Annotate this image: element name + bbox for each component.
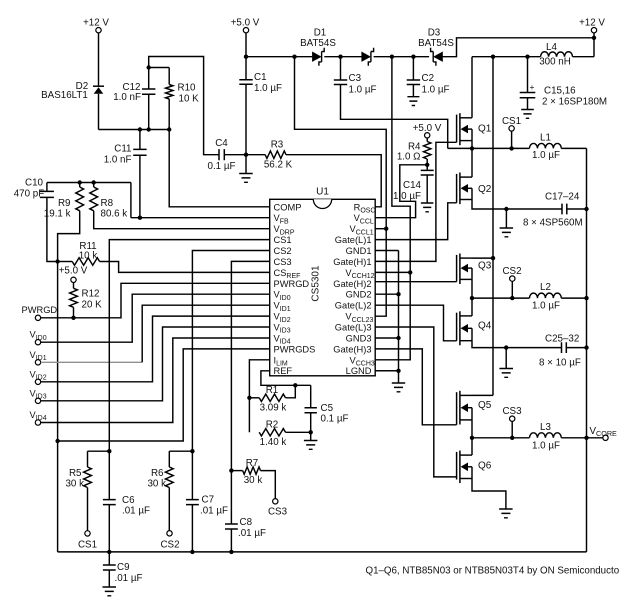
svg-text:U1: U1 <box>316 186 329 197</box>
svg-text:30 k: 30 k <box>244 475 263 486</box>
svg-text:+12 V: +12 V <box>579 18 605 29</box>
svg-text:1.0 µF: 1.0 µF <box>532 301 560 312</box>
svg-text:C3: C3 <box>349 73 362 84</box>
svg-text:R1: R1 <box>266 385 279 396</box>
svg-text:Gate(L)1: Gate(L)1 <box>335 235 372 245</box>
svg-text:+: + <box>530 82 535 92</box>
svg-text:CS5301: CS5301 <box>311 265 322 302</box>
svg-text:BAT54S: BAT54S <box>418 38 454 49</box>
svg-text:CS3: CS3 <box>274 257 292 267</box>
svg-text:Q4: Q4 <box>478 321 492 332</box>
svg-text:56.2 K: 56.2 K <box>264 160 293 171</box>
svg-text:+12 V: +12 V <box>83 18 109 29</box>
svg-text:Gate(H)1: Gate(H)1 <box>333 257 371 267</box>
svg-text:C5: C5 <box>321 403 334 414</box>
svg-text:470 pF: 470 pF <box>14 189 45 200</box>
svg-text:3.09 k: 3.09 k <box>260 403 287 414</box>
svg-text:+5.0 V: +5.0 V <box>231 18 260 29</box>
svg-text:1.0 nF: 1.0 nF <box>104 155 132 166</box>
svg-text:Gate(L)3: Gate(L)3 <box>335 323 372 333</box>
svg-text:19.1 k: 19.1 k <box>44 209 71 220</box>
svg-text:R8: R8 <box>101 198 114 209</box>
svg-text:C10: C10 <box>25 178 44 189</box>
svg-text:+5.0 V: +5.0 V <box>59 266 88 277</box>
svg-text:R7: R7 <box>246 458 259 469</box>
svg-text:300 nH: 300 nH <box>539 57 571 68</box>
svg-text:CS1: CS1 <box>502 116 521 127</box>
svg-text:1.0 Ω: 1.0 Ω <box>397 152 421 163</box>
svg-text:CS1: CS1 <box>274 235 292 245</box>
svg-text:.01 µF: .01 µF <box>122 506 150 517</box>
svg-text:COMP: COMP <box>274 202 302 212</box>
svg-text:10 K: 10 K <box>179 94 200 105</box>
svg-text:C7: C7 <box>202 495 215 506</box>
svg-text:CS1: CS1 <box>78 540 97 551</box>
svg-text:20 K: 20 K <box>82 300 103 311</box>
svg-text:L3: L3 <box>540 422 551 433</box>
svg-text:L1: L1 <box>540 132 551 143</box>
svg-text:BAS16LT1: BAS16LT1 <box>41 90 88 101</box>
svg-text:1.0 µF: 1.0 µF <box>254 83 282 94</box>
svg-text:CS2: CS2 <box>502 266 521 277</box>
svg-text:1.0 µF: 1.0 µF <box>393 191 421 202</box>
svg-text:Gate(L)2: Gate(L)2 <box>335 301 372 311</box>
svg-text:1.0 nF: 1.0 nF <box>113 92 141 103</box>
svg-text:BAT54S: BAT54S <box>300 38 336 49</box>
svg-text:PWRGDS: PWRGDS <box>274 344 316 354</box>
svg-text:D1: D1 <box>314 28 327 39</box>
svg-text:30 k: 30 k <box>65 479 84 490</box>
svg-text:C2: C2 <box>422 73 435 84</box>
svg-text:D3: D3 <box>428 28 441 39</box>
svg-text:R10: R10 <box>178 83 197 94</box>
svg-text:.01 µF: .01 µF <box>238 528 266 539</box>
svg-text:L4: L4 <box>546 42 557 53</box>
svg-text:C14: C14 <box>403 180 422 191</box>
svg-text:30 k: 30 k <box>147 479 166 490</box>
svg-text:2 × 16SP180M: 2 × 16SP180M <box>542 97 607 108</box>
svg-text:C15,16: C15,16 <box>544 86 576 97</box>
svg-text:R9: R9 <box>58 198 71 209</box>
svg-text:C8: C8 <box>240 517 253 528</box>
svg-text:Q3: Q3 <box>478 261 492 272</box>
svg-text:8 × 4SP560M: 8 × 4SP560M <box>523 218 583 229</box>
svg-text:LGND: LGND <box>346 366 372 376</box>
svg-text:GND3: GND3 <box>346 334 372 344</box>
svg-text:R3: R3 <box>271 140 284 151</box>
svg-text:R6: R6 <box>151 468 164 479</box>
svg-text:C9: C9 <box>117 562 130 573</box>
svg-text:REF: REF <box>274 366 293 376</box>
svg-text:C25–32: C25–32 <box>545 334 579 345</box>
svg-text:10 k: 10 k <box>79 251 98 262</box>
svg-text:Q5: Q5 <box>478 400 492 411</box>
svg-text:Q6: Q6 <box>478 461 492 472</box>
svg-text:PWRGD: PWRGD <box>22 305 58 315</box>
svg-text:R12: R12 <box>82 289 100 300</box>
svg-text:1.0 µF: 1.0 µF <box>532 150 560 161</box>
svg-text:CS2: CS2 <box>160 540 179 551</box>
svg-text:1.0 µF: 1.0 µF <box>349 85 377 96</box>
svg-text:0.1 µF: 0.1 µF <box>321 414 349 425</box>
svg-text:Q1–Q6, NTB85N03 or NTB85N03T4: Q1–Q6, NTB85N03 or NTB85N03T4 by ON Semi… <box>366 566 620 577</box>
svg-text:Gate(H)2: Gate(H)2 <box>333 279 371 289</box>
svg-text:GND2: GND2 <box>346 290 372 300</box>
svg-text:0.1 µF: 0.1 µF <box>208 161 236 172</box>
svg-text:CS3: CS3 <box>268 507 288 518</box>
svg-text:CS3: CS3 <box>502 406 522 417</box>
svg-text:R5: R5 <box>69 468 82 479</box>
svg-text:C11: C11 <box>114 144 131 155</box>
svg-text:1.40 k: 1.40 k <box>260 437 287 448</box>
svg-text:C6: C6 <box>122 495 135 506</box>
svg-text:R2: R2 <box>266 419 279 430</box>
svg-text:1.0 µF: 1.0 µF <box>422 85 450 96</box>
svg-text:1.0 µF: 1.0 µF <box>532 441 560 452</box>
svg-text:GND1: GND1 <box>346 246 372 256</box>
svg-text:PWRGD: PWRGD <box>274 279 310 289</box>
svg-text:.01 µF: .01 µF <box>200 506 228 517</box>
svg-text:CS2: CS2 <box>274 246 292 256</box>
svg-text:Q2: Q2 <box>478 184 492 195</box>
svg-text:80.6 k: 80.6 k <box>101 209 128 220</box>
svg-text:L2: L2 <box>540 282 551 293</box>
svg-text:Q1: Q1 <box>478 124 492 135</box>
svg-text:.01 µF: .01 µF <box>115 573 143 584</box>
svg-text:8 × 10 µF: 8 × 10 µF <box>539 358 581 369</box>
svg-text:C1: C1 <box>254 72 267 83</box>
svg-text:Gate(H)3: Gate(H)3 <box>333 344 371 354</box>
svg-text:C4: C4 <box>215 138 228 149</box>
svg-text:C17–24: C17–24 <box>545 192 580 203</box>
